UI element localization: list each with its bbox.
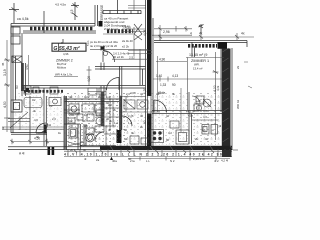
labels small numbers left bath (32, 98, 62, 139)
texture: scan noise over left bath (14, 93, 62, 131)
wire: corridor cross lines (104, 96, 120, 130)
wire: corridor detail lines (104, 99, 119, 146)
svg-text:WD 42: WD 42 (236, 100, 240, 110)
dimension: bottom-left chain (10, 139, 64, 144)
pier: bath door hinge blob (44, 125, 47, 134)
pier: small black triangle mark (110, 157, 113, 160)
core: middle service walls (64, 96, 119, 150)
texture: hatch lines on right wall (223, 48, 229, 142)
pier: black pier right of corridor (117, 130, 122, 143)
window: left bay box (11, 100, 22, 112)
window band: ZIMMER1 top window dark (188, 44, 217, 48)
window band: top-left window sill dashes (30, 27, 94, 30)
bath2: right bathroom fixtures (192, 96, 218, 134)
svg-text:1k: 1k (58, 131, 62, 135)
wall: ZIMMER1 bottom wall (152, 92, 223, 144)
svg-text:4l,Vl 4,10 1,20 3la L L L N 2: 4l,Vl 4,10 1,20 3la L L L N 2 2 2,26 2 1… (64, 153, 230, 157)
bath: left bathroom walls (30, 88, 46, 146)
stamp: area box 55,43 m2 (52, 43, 86, 52)
wall: right outer heavy wall hatched (221, 48, 232, 150)
svg-text:4,08: 4,08 (143, 30, 147, 36)
svg-text:4,2k: 4,2k (216, 85, 220, 91)
texture: scan noise over right bath (192, 93, 221, 145)
wall: terrace left vertical double (95, 5, 98, 26)
labels extra scattered numbers upper service (106, 101, 222, 149)
note text block under terrace wall (104, 17, 131, 32)
window band: dark dashes under note (107, 29, 133, 33)
wall: ZIMMER2 bottom wall (22, 86, 146, 89)
door arc: entry arc bottom-left (38, 124, 48, 134)
door arc: bath door (36, 123, 46, 133)
wall: bottom main wall double (8, 147, 232, 150)
fixtures: extra boxes in service core (64, 110, 103, 123)
svg-text:4,50: 4,50 (3, 101, 7, 108)
wall: left outer wall double (11, 24, 22, 134)
dimension: upper-right horizontal chain (154, 33, 254, 40)
fixtures: kitchen light diagonals (0, 0, 1, 1)
svg-text:Möbius: Möbius (57, 65, 67, 69)
wire: hall lines left (2, 116, 64, 130)
svg-text:4,2 4l: 4,2 4l (221, 159, 228, 163)
svg-text:4,09: 4,09 (87, 76, 91, 82)
svg-text:4l 2: 4l 2 (214, 159, 219, 163)
svg-text:90: 90 (172, 83, 176, 87)
window: balcony door box with X (12, 56, 22, 63)
texture: scan noise over service core (64, 93, 104, 146)
svg-text:e2 2k: e2 2k (122, 45, 129, 49)
pier: bottom-right wall foot (222, 150, 232, 157)
symbol: small circle in annotation zone (104, 52, 108, 56)
kitchen: lower fixtures (130, 121, 189, 144)
label left chain numbers rotated (3, 69, 19, 108)
wire: right end verticals of bottom band (233, 149, 238, 151)
wire: bath diagonal (10, 112, 28, 128)
labels middle service numbers (69, 95, 113, 152)
wire: annotation zone lines (90, 50, 148, 60)
svg-text:4,5 40: 4,5 40 (122, 25, 130, 29)
svg-text:4,5x: 4,5x (25, 64, 29, 70)
label tiny rows left column (122, 25, 133, 49)
wire: top-left vertical dimension leader (9, 3, 19, 23)
svg-text:4,50: 4,50 (34, 137, 40, 141)
fixtures: under-wall row right (88, 88, 106, 95)
fixtures: right bath extra (192, 96, 202, 111)
svg-text:45: 45 (1, 62, 5, 66)
wall: heavy central vertical wall (146, 0, 154, 146)
svg-text:2k: 2k (236, 65, 240, 69)
dimension: bottom chain line with ticks (64, 149, 232, 156)
svg-text:1,40: 1,40 (156, 74, 162, 78)
wire: kitchen vertical line (180, 88, 182, 132)
svg-text:2a 4k 40: 2a 4k 40 (122, 39, 133, 43)
svg-text:3,19: 3,19 (3, 69, 7, 76)
label 2,96 and 4x (163, 30, 245, 36)
labels kitchen sparse (158, 91, 194, 118)
wall: left wall inner lines and poche (16, 56, 26, 100)
svg-text:A2: A2 (140, 145, 144, 149)
svg-text:WFl 4,6a 1,9x: WFl 4,6a 1,9x (55, 73, 73, 77)
svg-text:2,26 2 4l: 2,26 2 4l (193, 157, 205, 161)
opening: X cross mark (134, 24, 142, 40)
kitchen: counters top row (122, 97, 148, 110)
label extra numbers second bottom row (96, 158, 219, 163)
wire: kitchen mid lines (122, 96, 160, 112)
svg-text:4,96: 4,96 (63, 52, 69, 56)
core: WC partition walls (80, 124, 116, 146)
pier: corner pier top-right (218, 42, 228, 49)
label bottom dense numbers row (64, 153, 230, 157)
label bottom extra marks row (84, 157, 205, 161)
svg-text:N 2: N 2 (170, 159, 175, 163)
dimension: vertical 4,09 (87, 66, 92, 86)
texture: light ticks on dark band (110, 146, 233, 150)
wall: terrace top wall (103, 0, 141, 14)
label vertical dim text along central wall (143, 30, 147, 124)
wall: corridor left wall lower segment (101, 86, 104, 126)
dimension: second bottom row of marks (128, 157, 230, 161)
svg-text:50: 50 (15, 85, 19, 89)
wall: interior vertical wall right of ZIMMER2 (101, 46, 105, 70)
fixtures: under-wall row left (24, 86, 58, 94)
wall: bottom dark band (100, 146, 232, 150)
label vertical text right of wall (236, 65, 240, 109)
door arc: lower door (106, 78, 119, 91)
dimension: vertical 4,00 chain (213, 52, 219, 140)
svg-text:4,13: 4,13 (172, 74, 178, 78)
svg-text:4l: 4l (84, 157, 87, 161)
svg-text:13,4 m²: 13,4 m² (193, 66, 203, 70)
pier: bottom-left black piers (48, 147, 55, 156)
wire: vertical leader x44 crossing top wall (43, 11, 45, 33)
label ZIMMER 2 (54, 59, 78, 77)
svg-text:2,96: 2,96 (163, 30, 170, 34)
labels right bath (195, 99, 214, 141)
wire: small ticks right of wall (244, 62, 252, 88)
svg-text:4,90: 4,90 (159, 57, 165, 61)
svg-text:40a: 40a (112, 159, 117, 163)
svg-text:4,5: 4,5 (70, 9, 74, 14)
wire: line under 13,65 (186, 57, 224, 59)
wall: horizontal wall under doors (95, 67, 146, 70)
labels kitchen numbers (126, 92, 176, 142)
svg-text:A 4l: A 4l (19, 152, 25, 156)
svg-text:L L: L L (146, 159, 150, 163)
label dims ZIMMER1 (156, 57, 178, 87)
svg-text:13,65 m² (9: 13,65 m² (9 (189, 53, 207, 57)
dimension: left vertical chain (4, 40, 10, 132)
svg-text:ca 4,5k: ca 4,5k (17, 17, 29, 21)
label small marks far-left margin (1, 62, 5, 130)
fixtures: WC area (68, 104, 104, 146)
wall: outer top-left horizontal wall double (11, 24, 96, 34)
wire: north mark top-right (199, 24, 204, 33)
svg-text:1,33: 1,33 (160, 83, 166, 87)
labels above counters (130, 91, 164, 95)
svg-text:5 kn: 5 kn (86, 40, 90, 46)
texture: scan noise over corridor strip (104, 93, 128, 146)
door arc: WC door (95, 132, 104, 141)
window band: bath top dark dashes (24, 90, 63, 93)
svg-text:2a: 2a (96, 158, 100, 162)
label room ZIMMER 1 texts (189, 53, 209, 71)
door arc: kitchen door from central wall (154, 100, 167, 113)
dimension: interior vertical line left (28, 55, 30, 85)
dimension: lines inside ZIMMER1 (153, 62, 222, 82)
wire: top mid vertical leader with ticks (71, 2, 79, 20)
svg-text:4,5 4,5a: 4,5 4,5a (55, 3, 66, 7)
wire: balcony horizontals left of central wall (128, 0, 146, 10)
svg-text:4x: 4x (241, 32, 245, 36)
pier: black pier at terrace corner (99, 21, 103, 27)
wall: ZIMMER1 top wall double (154, 41, 247, 58)
wire: ticks along left of bottom chain (74, 150, 214, 154)
fixtures: tub and sink left bath (24, 98, 61, 108)
wall: bottom-left outer wall (11, 133, 47, 135)
texture: scan noise over kitchen (128, 93, 189, 145)
dimension: chain above ZIMMER1 (152, 25, 192, 41)
wall: corridor right vertical double (120, 66, 122, 130)
note: dense annotation rows left of central wall (90, 40, 130, 59)
dimension: mid chains left of central wall (122, 27, 152, 56)
door arc: corridor to kitchen arc (122, 116, 132, 126)
door arc: upper door (103, 51, 115, 63)
svg-text:40 e2 2k: 40 e2 2k (113, 55, 124, 59)
wire: tick above stamp (61, 39, 63, 45)
window: left wall reveal boxes (11, 27, 20, 44)
svg-text:2 la: 2 la (130, 159, 135, 163)
wall: corridor wall fill (101, 92, 104, 126)
